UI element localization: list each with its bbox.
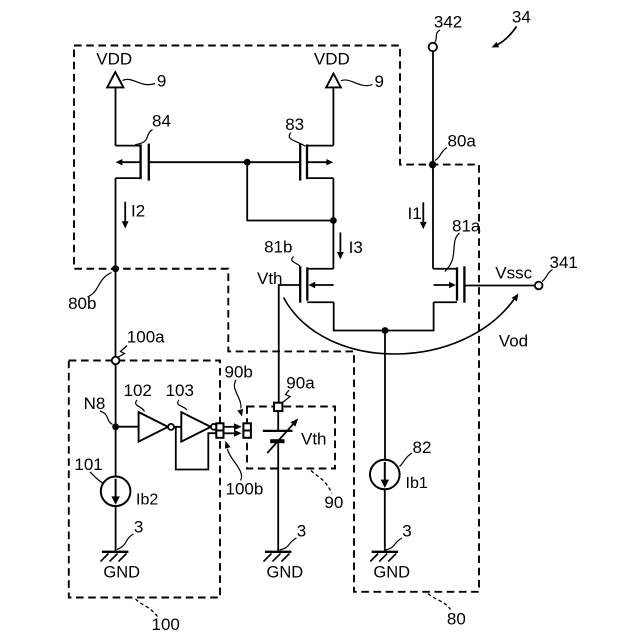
power symbol VDD right: [314, 50, 350, 88]
svg-text:3: 3: [402, 522, 411, 541]
wire tail down to current source 82: [384, 331, 386, 460]
dashed leader and label 100: [136, 599, 180, 634]
leader and label 103: [166, 381, 194, 410]
leader and label 342: [434, 13, 462, 43]
ground under 82: [370, 552, 398, 562]
inverter 102: [139, 412, 174, 442]
svg-text:80a: 80a: [448, 132, 477, 151]
wire 82 down to ground: [384, 489, 386, 551]
svg-text:100b: 100b: [226, 480, 264, 499]
leader and label 90a: [283, 374, 316, 403]
leader and label N8: [84, 394, 113, 425]
wire feedback loop under 103 to lower pin of 100b: [176, 428, 217, 470]
svg-text:103: 103: [166, 381, 194, 400]
wire 81a drain up to node 80a and terminal 342: [432, 51, 435, 268]
current source 82 (Ib1): [370, 460, 400, 490]
svg-text:341: 341: [550, 253, 578, 272]
svg-text:9: 9: [375, 72, 384, 91]
leader and label 81b: [264, 238, 300, 267]
leader and label 3 right: [386, 522, 412, 551]
figure arrow 34: [492, 8, 531, 48]
svg-text:Vod: Vod: [499, 332, 528, 351]
svg-text:I1: I1: [408, 204, 422, 223]
ground under 101: [101, 552, 129, 562]
variable capacitor Vth inside box 90: [263, 411, 299, 551]
gate wire 84-83 with junction: [149, 161, 300, 163]
power symbol VDD left: [96, 50, 132, 88]
leader and label 81a: [445, 217, 481, 272]
transistor 81a (NMOS, right of differential pair): [434, 266, 465, 302]
wire 100a down through N8 to current source 101: [115, 364, 117, 476]
svg-text:81b: 81b: [264, 238, 292, 257]
svg-text:102: 102: [124, 381, 152, 400]
current annotation I2: [122, 202, 145, 229]
svg-text:3: 3: [297, 522, 306, 541]
svg-text:101: 101: [74, 455, 102, 474]
node N8 junction dot: [112, 423, 119, 430]
leader and label 3 left: [117, 518, 143, 550]
wire node 80b column: 84 drain down to node 100a: [115, 178, 117, 357]
svg-text:VDD: VDD: [96, 50, 132, 69]
current annotation I1: [408, 202, 427, 229]
svg-text:82: 82: [413, 438, 432, 457]
leader and label 80b: [68, 273, 111, 314]
svg-text:Vth: Vth: [301, 430, 327, 449]
current source 101 (Ib2): [101, 477, 131, 507]
node: gate junction dot: [244, 159, 251, 166]
svg-text:80: 80: [447, 610, 466, 629]
signal arrow upper 100b to 90b: [224, 423, 242, 430]
svg-text:Vth: Vth: [257, 269, 283, 288]
node 80a junction dot: [429, 161, 436, 168]
svg-text:Ib2: Ib2: [136, 492, 158, 509]
node: diode-connect junction dot: [330, 217, 337, 224]
svg-text:N8: N8: [84, 394, 106, 413]
wire 83 junction down to transistor 81b: [332, 221, 334, 269]
transistor 84 (PMOS): [116, 144, 149, 181]
signal arrow lower 100b to 90b: [224, 430, 242, 437]
leader and label 83: [285, 115, 305, 146]
terminal 341 open circle (Vssc): [535, 282, 543, 290]
dashed leader and label 90: [311, 471, 343, 513]
inverter 103: [181, 412, 217, 442]
leader and label 102: [124, 381, 152, 412]
leader and label 9 left: [123, 72, 167, 91]
svg-text:34: 34: [512, 8, 531, 27]
leader and label 84: [135, 112, 171, 145]
svg-text:100: 100: [152, 615, 180, 634]
svg-text:I3: I3: [349, 238, 363, 257]
svg-text:342: 342: [434, 13, 462, 32]
wire 102 to 103: [174, 426, 181, 428]
svg-text:80b: 80b: [68, 294, 96, 313]
svg-text:100a: 100a: [127, 328, 165, 347]
dashed box 90 (variable threshold portion): [247, 407, 335, 469]
Vod arc annotation: [284, 294, 529, 355]
dashed leader and label 80: [428, 594, 466, 629]
node 100a open circle on box edge: [112, 357, 120, 365]
wire junction down and right to 83 drain column: [247, 162, 333, 220]
leader and label 101: [74, 455, 103, 484]
node 80b junction dot: [112, 265, 119, 272]
leader and label 90b: [225, 363, 253, 417]
wire 81b source down to tail: [334, 302, 385, 330]
leader and label 80a: [435, 132, 477, 161]
connector 90a square on box 90 top edge: [274, 403, 282, 411]
wire 81b gate to Vth node: [279, 285, 300, 403]
wire 81a gate to Vssc terminal: [464, 285, 535, 287]
connector 90b (two pins) on box 90 edge: [243, 423, 251, 438]
svg-text:Vssc: Vssc: [495, 264, 532, 283]
current annotation I3: [337, 232, 363, 259]
svg-text:GND: GND: [103, 564, 140, 582]
svg-text:9: 9: [157, 72, 166, 91]
node: tail junction dot: [382, 327, 389, 334]
wire 101 down to ground: [115, 506, 117, 551]
svg-text:VDD: VDD: [314, 50, 350, 69]
leader and label 100a: [118, 328, 166, 358]
svg-text:81a: 81a: [452, 217, 481, 236]
wire N8 to inverter 102 input: [116, 426, 139, 428]
leader and label 341: [542, 253, 578, 282]
wire VDD right down to 83, and 83 to junction: [332, 88, 334, 221]
wire 81a source down to tail: [385, 302, 434, 330]
dashed box 100 (control circuit): [69, 361, 220, 598]
svg-text:GND: GND: [267, 564, 304, 582]
svg-text:3: 3: [134, 518, 143, 537]
svg-text:84: 84: [152, 112, 171, 131]
svg-text:90a: 90a: [286, 374, 315, 393]
svg-text:83: 83: [285, 115, 304, 134]
leader and label 82: [400, 438, 432, 467]
transistor 83 (PMOS, mirrored): [300, 144, 333, 181]
svg-text:90: 90: [324, 493, 343, 512]
terminal 342 open circle: [429, 43, 437, 51]
leader and label 3 middle: [280, 522, 307, 551]
svg-text:I2: I2: [131, 202, 145, 221]
leader and label 100b: [225, 441, 263, 499]
dashed outline 80 (delay portion boundary): [74, 46, 479, 592]
ground under variable capacitor: [264, 552, 292, 562]
svg-text:GND: GND: [373, 564, 410, 582]
connector 100b (two pins): [216, 423, 223, 438]
svg-text:90b: 90b: [225, 363, 253, 382]
svg-text:Ib1: Ib1: [406, 475, 428, 492]
leader and label 9 right: [341, 72, 384, 91]
transistor 81b (NMOS, left of differential pair): [300, 266, 334, 302]
wire VDD left down to transistor 84: [115, 88, 117, 146]
